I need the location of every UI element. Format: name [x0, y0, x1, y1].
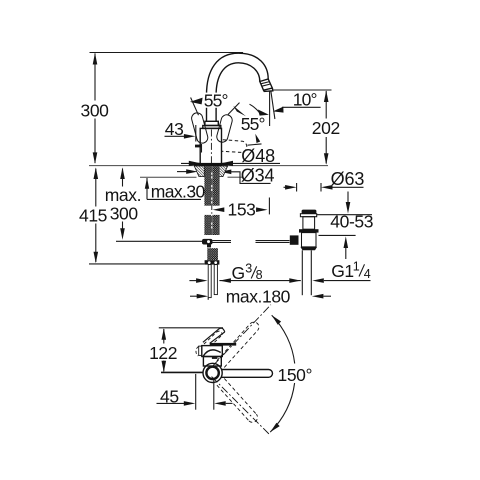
- top extension line: [90, 52, 244, 54]
- threaded shank upper: [204, 166, 219, 206]
- top extension line: [159, 327, 223, 329]
- body centerline: [210, 130, 212, 166]
- dimension 40-53: [317, 192, 373, 260]
- angle 55deg second: [248, 104, 269, 145]
- dimension 300: [81, 53, 110, 164]
- svg-text:1: 1: [353, 259, 360, 273]
- dimension diam48: [181, 146, 280, 166]
- pop-up plug cap: [302, 210, 317, 214]
- svg-text:10°: 10°: [293, 89, 317, 109]
- spout outer contour: [207, 53, 269, 121]
- svg-text:150°: 150°: [278, 365, 313, 385]
- svg-text:3: 3: [245, 261, 252, 275]
- rod ball joint: [202, 239, 213, 245]
- dimension 45: [157, 374, 233, 410]
- escutcheon bracket: [199, 346, 202, 355]
- shank centerline: [211, 166, 213, 235]
- dimension 202: [273, 90, 340, 165]
- svg-text:40-53: 40-53: [330, 212, 373, 232]
- svg-text:max.: max.: [105, 185, 141, 205]
- deck line: [161, 371, 203, 373]
- swivel pivot circles: [203, 363, 222, 382]
- svg-text:max.30: max.30: [151, 181, 206, 201]
- pop-up rod knob: [195, 145, 202, 148]
- pop-up rod line: [116, 240, 202, 242]
- svg-text:300: 300: [110, 204, 139, 224]
- svg-text:8: 8: [256, 268, 263, 282]
- label 55deg first: [203, 93, 232, 108]
- svg-text:55°: 55°: [204, 91, 228, 111]
- body (side view): [202, 346, 223, 357]
- svg-text:max.180: max.180: [226, 286, 291, 306]
- lever horizontal ghost (dashed pill): [222, 140, 247, 153]
- base flange: [194, 163, 228, 166]
- dimension 415: [79, 167, 107, 263]
- lever position ear left: [190, 112, 209, 145]
- aerator band: [260, 79, 273, 90]
- svg-text:415: 415: [79, 206, 107, 226]
- svg-text:153: 153: [228, 199, 256, 219]
- deck underside line: [140, 176, 197, 178]
- deck top line: [89, 165, 197, 167]
- svg-text:202: 202: [312, 118, 340, 138]
- threaded shank lower: [204, 215, 219, 235]
- faucet body: [200, 128, 221, 165]
- centerline upper ghost: [213, 305, 271, 366]
- callout max.30: [145, 178, 206, 202]
- spout ghost upper (dashed pill): [217, 322, 259, 367]
- spout ghost lower (dashed pill): [217, 379, 258, 423]
- lever raised ghost (dashed): [204, 331, 223, 346]
- dimension 43: [165, 119, 196, 142]
- drain locknut: [299, 229, 319, 232]
- dimension diam63: [284, 169, 365, 192]
- drain flange: [300, 214, 316, 217]
- centerline lower ghost: [212, 377, 270, 435]
- svg-text:Ø34: Ø34: [241, 166, 275, 186]
- lever paddle (side view): [203, 329, 219, 343]
- swivel arc 150deg: [272, 315, 295, 363]
- drain lower body: [302, 233, 317, 247]
- angle 10deg: [270, 89, 321, 126]
- lever bar: [210, 343, 237, 346]
- lever position ear right: [216, 114, 234, 144]
- svg-text:Ø63: Ø63: [331, 169, 365, 189]
- angle 55deg first: [190, 98, 246, 117]
- svg-text:G: G: [232, 263, 245, 283]
- dimension max.180: [190, 286, 331, 306]
- svg-text:Ø48: Ø48: [241, 146, 275, 166]
- 415 bottom extension line: [89, 263, 205, 265]
- drain tailpipe: [301, 250, 303, 295]
- svg-text:45: 45: [160, 386, 179, 406]
- supply hoses: [208, 265, 211, 298]
- dimension 122: [149, 328, 177, 372]
- label G1 1/4: [331, 259, 371, 281]
- thread G3/8 and G1 1/4 dimensions: [189, 278, 370, 283]
- spout inner contour: [216, 63, 260, 122]
- dimension 153: [213, 198, 270, 220]
- svg-text:300: 300: [81, 100, 110, 120]
- svg-text:122: 122: [149, 343, 177, 363]
- drain side port: [290, 235, 299, 244]
- drain upper body: [303, 217, 315, 230]
- svg-text:55°: 55°: [241, 114, 265, 134]
- handle lever collar: [205, 121, 218, 125]
- supply nipple: [207, 248, 218, 260]
- drain cone: [300, 247, 317, 250]
- svg-text:4: 4: [364, 267, 371, 281]
- svg-text:G1: G1: [331, 261, 354, 281]
- label G3/8: [232, 261, 263, 283]
- dimension max.300: [105, 167, 141, 239]
- spout tip: [264, 88, 273, 91]
- spout pill (side view): [221, 370, 273, 378]
- dimension diam34: [177, 166, 275, 186]
